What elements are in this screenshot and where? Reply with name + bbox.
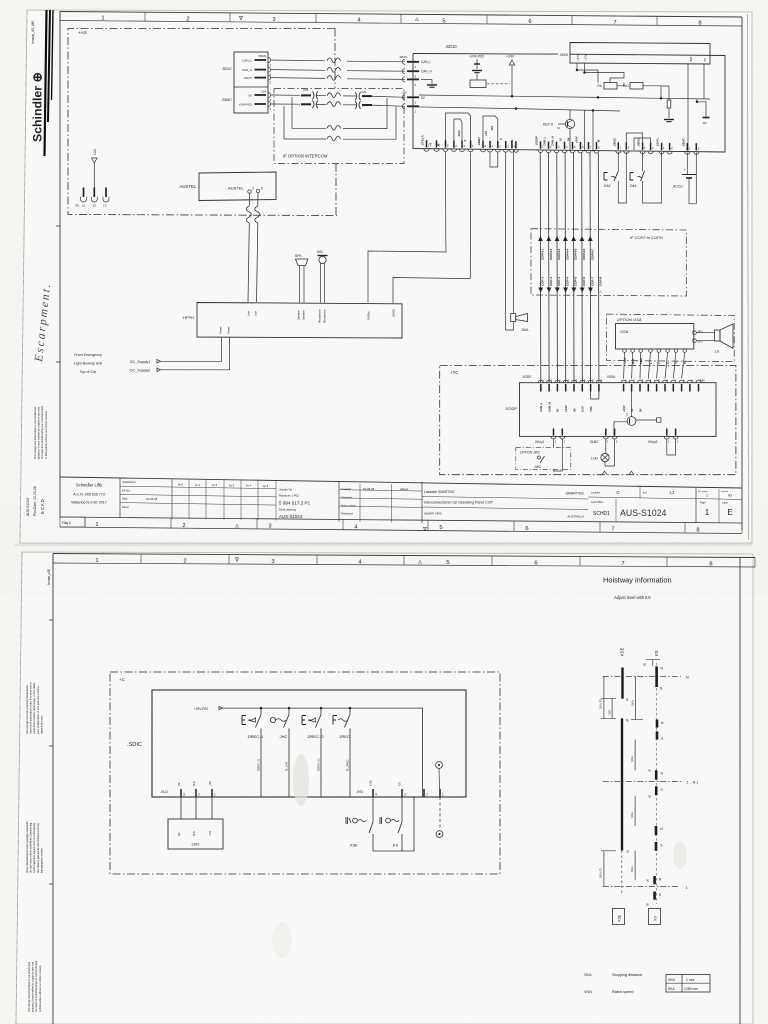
switch .DREC-U [260,708,262,714]
page 1 frame left border [59,12,61,519]
COPH-N rotated labels top [541,248,595,260]
cable marker arcs on CAN bus [327,58,341,63]
switch .KS [401,797,403,822]
wire loop above XBNT pins [483,116,498,141]
short verticals rail to pins [584,110,586,151]
level line 2..N-1 dashed [603,781,683,783]
SKA measure 1 [635,676,637,719]
legend table [666,975,710,993]
wire CAN_H to SD10 [271,69,325,72]
title block schindler address cell [119,478,121,518]
wire SD10 pin to HFPH 24VBat [368,152,446,303]
KS magnet pair C [655,826,658,835]
COPH wires bundle [540,152,599,383]
+24V rail inside SDIC [222,707,422,709]
+C dash-dot enclosure [110,672,500,874]
wires .DA1 loop [642,152,644,171]
KS magnet pair B [655,770,658,779]
second rail inside SD10 [413,107,620,111]
title block smart hrs [422,507,588,510]
.XODP pin rotated labels [539,402,593,412]
horn .50A symbol [511,314,516,322]
KS magnet top [655,666,658,687]
transistor inside SODP [627,417,636,426]
title block modification table [171,479,173,519]
wires GSA pins down to X9DA [624,352,685,378]
wire +24V SMIC to X24 [271,103,300,105]
page 2 paper left dashed edge [16,552,22,1024]
wire loop above RA1 pins [446,113,471,142]
circle-dot contact upper [436,762,443,769]
.SD10 bottom connector pins [424,140,700,154]
SKA measure 2 [634,740,636,771]
KSE boxed label bottom [613,909,625,925]
KS boxed label bottom [649,909,661,925]
.SODP block body [520,383,717,437]
wires XLD to LMO [180,797,182,819]
battery .ACCU [682,174,696,176]
.GSA bottom pin circles [623,349,687,353]
KS magnet pair D [653,876,656,884]
wires XLNC to lamp [605,439,607,453]
notch loop below XBNT pins [490,152,498,167]
wires GSA to speaker LS [696,332,714,334]
wire transistor emitter down to pin [569,129,571,151]
option loop wire lower 0V [292,97,326,128]
wires XKey1 to JWC [553,439,555,447]
wire to X24 right [343,95,356,97]
.XODP top pins [538,379,602,392]
COP-N rotated labels bottom [541,277,603,287]
page 1 bottom ruler flag cell [60,517,85,527]
option loop wire lower 24V [284,106,326,139]
wire NS0 0V down with junction [703,64,705,99]
wires XKey2 stubs [666,439,668,455]
.NS0 block body [570,43,710,65]
page 1 paper sheet [20,10,752,543]
page 1 bottom ruler numbers [95,522,699,533]
wire 0V SMIC to X24 [271,94,300,96]
.XL terminal pins with arrows [83,188,85,198]
SKA measure 3 [634,796,636,826]
branch to 8V ground [696,99,698,102]
switch .DREC-O [320,708,322,714]
.XKey1 pins [551,436,556,439]
wire switches common return [373,797,414,851]
.XSI pin 4 [372,789,374,797]
switch .JWC [538,456,541,459]
wires battery loop [686,153,688,175]
+AS enclosure right edge lower segment [335,164,337,217]
wire inner loop above RA1 pins [454,119,462,142]
wires .DA2 loop [617,152,619,171]
.XLD pins 3 2 1 [180,789,182,797]
pins 3 2 1 right [401,789,403,797]
scan grain overlay [10,8,754,543]
wire transistor up [631,392,633,417]
KS magnet pair A [656,720,659,728]
wire NS0 BAT down to XBAT pin [687,64,689,152]
title block pages cell [695,488,697,522]
page 2 frame right border [739,557,741,1024]
page 2 frame left border [52,554,54,1024]
page 2 paper sheet [16,552,753,1024]
scan smudge artifacts [293,754,309,806]
OPTION GSA dashed box [606,314,734,362]
.X9DA pin rotated labels [622,405,642,412]
.GSA bottom pin rotated labels [623,357,687,364]
cable marker arcs on loop wires [327,125,341,130]
title block created checked cells [338,482,340,522]
wire transistor left [614,422,627,436]
junction dots on rail [260,707,263,710]
switch .JREC [349,708,351,714]
SKA-75 measure lower [603,851,605,887]
KS thin dashed guide [655,663,657,904]
page 2 margin tick marks [49,619,53,621]
speaker .LS symbol [715,330,720,341]
page 1 frame right outer paper crease lines [748,14,749,540]
sub-rectangle notch at XODP pin 8 [591,392,599,400]
wire loops above XBA pins [626,133,642,148]
switch .XSE [372,797,374,822]
.HFPH block body [197,303,402,339]
COPH wire bottom arrows [538,288,593,293]
.SD10 block outline [413,54,725,153]
SKA-75 measure upper [603,676,605,718]
page 2 top ruler band [53,554,755,558]
wire transistor to plug [636,419,657,421]
wire RA1 to resistor [643,86,661,99]
ground at SD10 BATT pin [421,78,432,80]
wire rail end down to pin 2 [422,708,424,797]
+AS enclosure right edge upper segment [334,29,336,89]
title block schd1 cell [588,497,696,499]
circle-dot contact lower [436,831,443,838]
level line N dashed [603,675,681,677]
wires NS0 to relays [576,64,578,71]
COPH wire top arrows [538,236,593,241]
+AS option enclosure dash-dot box [68,29,337,216]
junction dots on 0V rail [597,96,600,99]
switch .DA2 [604,173,608,181]
IF OPTION INTERCOM dash-dot box [274,89,404,164]
wire BATT to SD10 [271,77,325,80]
.LMO block [168,819,223,849]
interface block .SDIC/.SMIC body [234,52,268,113]
180 measure [611,699,613,719]
wires AUSTEL down to HFPH line pins [248,193,250,206]
level line 1 dashed [603,886,679,888]
wire X24 to cable marker [316,95,326,97]
+TC dash-dot enclosure [440,366,736,475]
switch .JHC [288,708,290,714]
.AUSTEL block body [199,172,276,201]
page 1 bottom shadow [14,544,752,547]
wire SD10 pin to HFPH 24VDC [393,153,471,304]
KSE magnet long [621,718,623,850]
page 1 paper left dashed edge [20,10,27,543]
.SDIC block body page 2 [152,690,466,797]
.X9DA top pins [621,379,704,392]
wire pin1 dashed down [439,797,441,830]
margin tick marks left edge [56,225,60,227]
.GSA block body [616,324,694,350]
KSE magnet upper [621,668,623,699]
page 1 top ruler band [60,12,742,18]
0V rail across SD10 [419,95,710,99]
wire transistor collector up to rail [569,110,571,119]
page 1 top ruler numbers [101,16,701,27]
resistor to ground [668,86,670,100]
.GSA SP pins right [693,331,697,335]
IF COP2 to COPH dash-dot box [531,229,686,296]
SKA measure 4 [634,851,636,880]
title block description row [422,497,588,500]
.XLNC pins [603,436,608,439]
OPTION JWC dashed box [516,447,571,469]
Schindler fax bars [45,10,47,156]
cable marker arcs 0V/24V rows [327,93,341,98]
page 1 bottom ruler band [60,517,742,523]
switch .DA1 [630,173,634,181]
KSE lower dashed tail [621,851,623,895]
wire X24 right to SD10 [371,96,405,97]
wires SD10 to horn .50A [505,153,513,331]
.XKey2 pins [664,436,669,439]
relay coil .RA drive box [470,80,486,88]
dashed link to +24V rail [487,83,510,85]
title block vertical divider at 422 [421,482,423,523]
wire +24V down to 0V rail junction [511,65,513,96]
title block outline [60,477,742,488]
page 1 frame right border [741,17,743,530]
page 2 top ruler numbers [95,558,712,567]
wire CAN_L to SD10 [271,59,325,62]
break marks on TC bottom border [602,471,634,475]
